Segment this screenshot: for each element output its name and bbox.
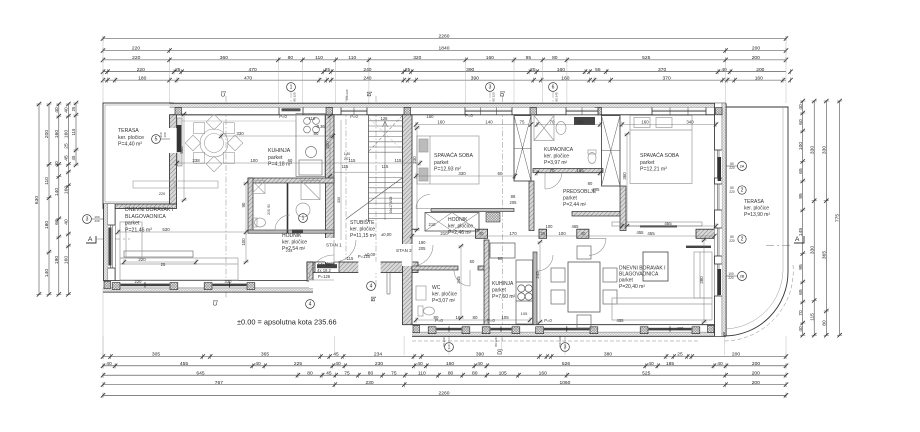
- wall kitchen east partition right apartment: [533, 252, 537, 325]
- svg-text:2260: 2260: [439, 391, 450, 397]
- svg-text:2260: 2260: [439, 34, 450, 40]
- axis marker 3 left wall: [83, 215, 92, 224]
- svg-text:238: 238: [192, 158, 200, 163]
- wall predsoblje south: [572, 212, 621, 217]
- axis line B (dash-dot): [375, 96, 377, 288]
- svg-text:70: 70: [798, 310, 804, 316]
- wall wc north right apartment: [412, 266, 458, 270]
- axis marker 4 bottom: [306, 300, 315, 309]
- kitchen upper cabinet strip left: [182, 116, 296, 122]
- svg-text:330: 330: [809, 246, 815, 254]
- svg-text:775: 775: [835, 214, 841, 222]
- junction block bottom right wall corner: [708, 325, 715, 332]
- svg-text:80: 80: [307, 370, 313, 376]
- svg-text:B]: B]: [371, 296, 377, 302]
- svg-text:160: 160: [427, 114, 435, 119]
- svg-text:60: 60: [498, 171, 503, 176]
- svg-text:115: 115: [71, 128, 76, 135]
- svg-text:D]: D]: [500, 91, 506, 97]
- svg-text:330: 330: [236, 131, 244, 136]
- svg-text:75: 75: [344, 370, 350, 376]
- svg-text:40: 40: [255, 361, 261, 367]
- svg-text:470: 470: [249, 67, 257, 73]
- svg-text:160: 160: [561, 75, 569, 81]
- svg-text:3: 3: [489, 85, 492, 91]
- svg-text:110: 110: [309, 116, 316, 121]
- svg-text:2A: 2A: [740, 164, 745, 169]
- svg-text:220: 220: [729, 190, 735, 194]
- axis marker 2A right: [738, 162, 747, 171]
- svg-text:160: 160: [64, 130, 70, 138]
- svg-text:45: 45: [64, 155, 70, 161]
- window left wall living: [108, 225, 115, 268]
- svg-text:160 220: 160 220: [558, 336, 562, 347]
- svg-text:234: 234: [374, 352, 382, 358]
- wall stairwell bottom: [307, 262, 418, 273]
- svg-text:80: 80: [552, 55, 558, 61]
- door arc kitchen right: [537, 255, 553, 271]
- svg-text:40: 40: [648, 361, 654, 367]
- washbasin kupaonica: [556, 122, 566, 135]
- svg-text:115: 115: [349, 158, 357, 163]
- svg-text:245: 245: [535, 271, 540, 279]
- svg-text:95: 95: [526, 55, 532, 61]
- svg-text:220: 220: [159, 192, 165, 196]
- svg-text:100: 100: [241, 238, 246, 246]
- svg-text:-0,36: -0,36: [315, 124, 325, 129]
- wall bedroom 2 west below closet: [620, 186, 626, 231]
- window right wall door 1 (terrace): [715, 150, 722, 178]
- svg-text:STAN 1: STAN 1: [326, 243, 342, 248]
- svg-text:100 220: 100 220: [345, 89, 349, 100]
- svg-text:525: 525: [642, 370, 650, 376]
- svg-text:525: 525: [642, 55, 650, 61]
- junction block bottom wall at wc: [413, 325, 420, 332]
- svg-text:240: 240: [363, 75, 371, 81]
- axis line 3 bottom (short): [564, 332, 566, 342]
- interior dimension lines texture: [116, 112, 718, 324]
- sideboard living room left: [133, 181, 218, 188]
- door arc bedroom 2: [589, 238, 606, 255]
- window top wall stairwell: [341, 108, 367, 115]
- window top wall bedroom 1: [465, 108, 512, 115]
- svg-text:80: 80: [368, 370, 374, 376]
- door leaf right wall door 4: [718, 269, 721, 295]
- wardrobe strip at terrace door: [177, 118, 182, 166]
- svg-text:25: 25: [175, 67, 181, 73]
- svg-text:210: 210: [440, 231, 448, 236]
- svg-text:185: 185: [576, 168, 584, 173]
- svg-text:160: 160: [64, 256, 70, 264]
- toilet left bathroom: [252, 218, 266, 227]
- door marker 5 terrace: [152, 135, 161, 144]
- window in stairwell bottom wall: [315, 262, 339, 272]
- svg-text:105: 105: [499, 370, 507, 376]
- axis line 6 (short): [552, 92, 554, 107]
- svg-text:±0.00 = apsolutna kota 235.66: ±0.00 = apsolutna kota 235.66: [237, 318, 337, 327]
- dimension line left col 3: [56, 102, 61, 297]
- window bottom wall right 2: [482, 325, 520, 334]
- svg-text:2B: 2B: [740, 274, 745, 279]
- svg-text:220: 220: [137, 67, 145, 73]
- svg-text:45: 45: [71, 155, 76, 160]
- svg-text:220: 220: [135, 279, 143, 284]
- sliding door leaf bedroom 2: [640, 225, 677, 227]
- dimension line right col inner: [800, 99, 805, 338]
- svg-text:630: 630: [34, 196, 40, 204]
- terrace right outline: [724, 107, 788, 336]
- svg-text:140: 140: [54, 188, 60, 196]
- svg-text:40: 40: [717, 361, 723, 367]
- svg-text:100: 100: [546, 224, 554, 229]
- dimension line top row 2 (220/1840/200): [101, 48, 788, 53]
- svg-text:200: 200: [325, 141, 330, 149]
- svg-text:160: 160: [539, 370, 547, 376]
- toilet wc right apartment: [418, 306, 435, 316]
- axis marker 3 bottom: [561, 343, 570, 352]
- dimension line top row 1 (2260): [101, 36, 788, 41]
- door gap bottom wall entry left: [309, 280, 334, 288]
- middle boundary edge line at stairwell: [412, 228, 418, 230]
- svg-text:25: 25: [541, 231, 546, 236]
- wall exterior bottom left apartment: [103, 281, 313, 293]
- wall stub middle 2: [539, 229, 547, 238]
- door arc STAN 1 stairwell: [334, 240, 356, 262]
- wall hallway north left apartment: [248, 230, 334, 233]
- door gap stairwell bottom (entry): [358, 262, 380, 274]
- svg-text:75: 75: [391, 370, 397, 376]
- dimension line left col 2: [46, 102, 51, 297]
- svg-text:200: 200: [732, 352, 740, 358]
- svg-text:80: 80: [821, 320, 827, 326]
- svg-text:80: 80: [448, 370, 454, 376]
- svg-text:115: 115: [342, 164, 349, 169]
- junction block top wall at closet 1: [530, 108, 537, 115]
- door arc STAN 1 entry: [309, 255, 334, 280]
- svg-text:767: 767: [215, 380, 223, 386]
- dimension line bottom row 5 (2260): [101, 393, 788, 398]
- section marker A right: [766, 236, 804, 246]
- window top wall living: [279, 108, 303, 115]
- svg-text:P=0: P=0: [350, 114, 358, 119]
- svg-text:P=0: P=0: [279, 114, 287, 119]
- svg-text:205: 205: [510, 200, 518, 205]
- svg-text:40: 40: [54, 107, 60, 113]
- svg-text:115: 115: [809, 313, 815, 321]
- svg-text:90 240: 90 240: [555, 92, 559, 102]
- svg-text:220: 220: [729, 166, 735, 170]
- shower left bathroom: [301, 181, 320, 200]
- svg-text:4x 19,2: 4x 19,2: [317, 268, 331, 273]
- svg-text:25: 25: [161, 262, 166, 267]
- washbasin left bathroom: [296, 203, 310, 217]
- door gap stairwell west (STAN 1): [325, 238, 335, 262]
- sofa right apartment: [612, 252, 712, 320]
- stairs walk line with arrow: [383, 121, 388, 220]
- closet wardrobe bedroom 1: [514, 116, 531, 182]
- svg-text:95: 95: [798, 193, 804, 199]
- svg-text:645: 645: [196, 370, 204, 376]
- svg-text:40: 40: [106, 361, 112, 367]
- door arc bathroom left: [275, 215, 290, 230]
- svg-text:6: 6: [552, 85, 555, 91]
- wall bedroom 1 south: [431, 209, 514, 212]
- junction block top wall at stairwell west: [326, 108, 333, 115]
- heater kupaonica: [574, 117, 595, 125]
- svg-text:340: 340: [686, 120, 694, 125]
- svg-text:220: 220: [729, 239, 735, 243]
- svg-text:160: 160: [641, 120, 649, 125]
- svg-text:60: 60: [54, 219, 60, 225]
- junction block top wall at right wall: [716, 108, 723, 115]
- wall kupaonica south: [533, 169, 603, 173]
- wall exterior bottom right apartment: [412, 325, 726, 337]
- svg-text:160: 160: [557, 67, 565, 73]
- entry porch edge lines: [387, 273, 390, 295]
- leader line door marker 5: [160, 138, 170, 140]
- svg-text:210: 210: [429, 222, 437, 227]
- svg-text:380: 380: [604, 352, 612, 358]
- svg-text:200: 200: [752, 46, 760, 52]
- svg-text:100: 100: [558, 231, 566, 236]
- desk shelf bedroom 2 south: [612, 222, 702, 226]
- svg-text:200: 200: [752, 55, 760, 61]
- svg-text:455: 455: [637, 230, 645, 235]
- svg-text:115: 115: [347, 256, 354, 261]
- dimension line top row 4 (segments): [101, 69, 793, 74]
- door arc bedroom 1: [416, 195, 430, 209]
- svg-text:360: 360: [622, 172, 627, 180]
- svg-text:390: 390: [466, 67, 474, 73]
- svg-text:D]: D]: [498, 349, 504, 355]
- axis marker 2 right lower: [738, 235, 746, 243]
- wall stub middle 1: [476, 229, 488, 238]
- dimension line right col 3: [824, 99, 829, 338]
- svg-text:80: 80: [314, 131, 319, 136]
- window bottom wall right 4: [640, 325, 700, 334]
- door leaf right wall door 1: [718, 157, 721, 181]
- svg-text:455: 455: [617, 318, 625, 323]
- window top wall bathroom: [566, 108, 598, 115]
- svg-text:95: 95: [798, 264, 804, 270]
- axis line D (dash-dot): [502, 96, 504, 341]
- leader line 2A right: [714, 165, 738, 167]
- washbasin wc right apartment: [416, 286, 426, 300]
- svg-text:P=0: P=0: [487, 318, 495, 323]
- svg-text:200: 200: [756, 67, 764, 73]
- svg-text:25: 25: [677, 352, 683, 358]
- svg-text:100: 100: [576, 120, 584, 125]
- svg-text:105: 105: [501, 315, 509, 320]
- parked sliding leaf living room: [686, 246, 711, 248]
- door gap terrace divider: [169, 128, 177, 153]
- wall stub middle 4 at right wall: [696, 229, 715, 238]
- axis line stairwell window (dash-dot): [345, 96, 347, 260]
- svg-text:90: 90: [498, 256, 503, 261]
- svg-text:STUBIŠTEker. pločiceP=11,15 m²: STUBIŠTEker. pločiceP=11,15 m²: [350, 219, 376, 239]
- svg-text:65: 65: [798, 168, 804, 174]
- svg-text:160: 160: [446, 361, 454, 367]
- junction block bottom wall left corner: [104, 281, 111, 288]
- svg-text:4: 4: [370, 284, 373, 290]
- svg-text:360: 360: [220, 55, 228, 61]
- svg-text:145: 145: [798, 228, 804, 236]
- svg-text:40: 40: [479, 231, 484, 236]
- svg-text:60: 60: [798, 119, 804, 125]
- svg-text:220: 220: [728, 276, 734, 280]
- svg-text:160: 160: [755, 75, 763, 81]
- svg-text:220: 220: [132, 55, 140, 61]
- svg-text:170: 170: [509, 231, 517, 236]
- svg-text:90 220: 90 220: [492, 92, 496, 102]
- stairs cut line diagonal upper 2 (dashed): [369, 118, 402, 150]
- window bench left apartment: [124, 251, 193, 257]
- svg-text:88: 88: [511, 194, 516, 199]
- svg-text:40: 40: [335, 361, 341, 367]
- terrace top-left outline: [103, 103, 173, 204]
- svg-text:205: 205: [593, 187, 601, 192]
- leader line marker 3 left: [91, 218, 103, 220]
- svg-text:390: 390: [476, 352, 484, 358]
- dimension line bottom row 1 (segments): [101, 354, 788, 359]
- dining table right apartment: [568, 262, 600, 312]
- terrace right outer dashed arc: [723, 265, 793, 341]
- washing machine left bathroom: [252, 181, 265, 194]
- svg-text:1060: 1060: [559, 380, 570, 386]
- dimension line right col 2: [812, 99, 817, 338]
- svg-text:16x17,5/28: 16x17,5/28: [389, 196, 393, 213]
- svg-text:330: 330: [225, 279, 233, 284]
- svg-text:200: 200: [752, 370, 760, 376]
- dining chairs left apartment: [185, 114, 243, 172]
- wall kitchen-wc partition right apartment: [484, 240, 489, 325]
- svg-text:455: 455: [647, 231, 655, 236]
- svg-text:105: 105: [521, 311, 528, 316]
- shower kupaonica: [534, 116, 554, 141]
- dining table left apartment: [200, 129, 228, 157]
- window right wall door 2 (terrace): [715, 184, 722, 210]
- axis marker 4 entry: [367, 282, 376, 291]
- svg-text:65: 65: [798, 289, 804, 295]
- toilet kupaonica: [588, 150, 596, 164]
- wall bathroom west left apartment: [248, 178, 253, 233]
- wall exterior top: [170, 103, 727, 115]
- svg-text:P=0: P=0: [465, 113, 473, 118]
- svg-text:P=126: P=126: [318, 274, 331, 279]
- closet hodnik right apartment: [425, 213, 479, 232]
- svg-text:230: 230: [412, 156, 417, 164]
- terrace right inner arc: [726, 107, 783, 329]
- svg-text:100: 100: [798, 142, 804, 150]
- svg-text:2: 2: [741, 237, 744, 243]
- svg-text:1840: 1840: [439, 46, 450, 52]
- stairs cut line diagonal upper (dashed): [369, 116, 402, 151]
- wall exterior right: [715, 103, 727, 336]
- axis marker 3 top: [486, 83, 495, 92]
- svg-text:330: 330: [337, 197, 341, 203]
- svg-text:40: 40: [64, 107, 70, 113]
- wall predsoblje west: [529, 181, 534, 231]
- axis line 3 (short): [489, 92, 491, 107]
- svg-text:110: 110: [315, 55, 323, 61]
- bed bedroom 2: [630, 116, 692, 184]
- sofa left apartment: [120, 222, 238, 280]
- svg-text:526: 526: [562, 361, 570, 367]
- svg-text:205: 205: [267, 209, 271, 215]
- svg-text:2: 2: [741, 188, 744, 194]
- svg-text:330: 330: [809, 146, 815, 154]
- scattered small dimension labels: [135, 113, 685, 331]
- svg-text:80 220: 80 220: [494, 337, 498, 347]
- dining chairs right apartment: [551, 246, 617, 328]
- window top wall bedroom 2: [652, 108, 706, 115]
- svg-text:A: A: [88, 236, 93, 243]
- svg-text:80: 80: [473, 315, 478, 320]
- svg-text:320: 320: [413, 55, 421, 61]
- svg-text:40: 40: [581, 231, 586, 236]
- window bottom wall left 2: [204, 281, 255, 290]
- stairs flight separation line: [334, 171, 403, 173]
- svg-text:25: 25: [405, 67, 411, 73]
- stairs void dim line: [340, 120, 342, 240]
- svg-text:40: 40: [477, 361, 483, 367]
- svg-text:25: 25: [64, 143, 70, 149]
- svg-text:200: 200: [752, 361, 760, 367]
- kitchen counter left apartment: [296, 114, 325, 177]
- svg-text:3: 3: [86, 217, 89, 223]
- wall stairwell east: [403, 115, 413, 325]
- svg-text:110: 110: [44, 177, 50, 185]
- axis line 1 (short): [290, 92, 292, 107]
- svg-text:185: 185: [666, 361, 674, 367]
- svg-text:45: 45: [333, 352, 339, 358]
- svg-text:80: 80: [288, 55, 294, 61]
- svg-text:25: 25: [325, 67, 331, 73]
- wall jog left apartment southeast: [307, 262, 313, 281]
- dimension line right col outer (775): [837, 99, 842, 338]
- svg-text:126: 126: [381, 116, 389, 121]
- axis marker 2 right upper: [738, 186, 746, 194]
- door leaf terrace: [177, 125, 182, 152]
- axis marker 1 top: [287, 83, 296, 92]
- svg-text:90: 90: [267, 204, 271, 208]
- svg-text:40: 40: [417, 361, 423, 367]
- washer block hodnik right: [486, 213, 500, 223]
- door gap stairwell east (STAN 2): [402, 244, 413, 266]
- svg-text:460: 460: [677, 326, 685, 331]
- svg-text:STAN 2: STAN 2: [396, 248, 412, 253]
- extension lines top dims: [103, 39, 786, 103]
- svg-text:A: A: [795, 236, 800, 243]
- svg-text:330: 330: [458, 171, 466, 176]
- stairs treads: [369, 116, 403, 219]
- svg-text:180: 180: [138, 75, 146, 81]
- svg-text:115: 115: [382, 164, 389, 169]
- svg-text:470: 470: [244, 75, 252, 81]
- stairs side rail: [368, 115, 370, 222]
- svg-text:140: 140: [485, 120, 493, 125]
- wall terrace south / living north-west: [103, 204, 177, 209]
- dimension line bottom row 4 (segments): [101, 382, 788, 387]
- svg-text:45: 45: [326, 370, 332, 376]
- svg-text:240: 240: [363, 67, 371, 73]
- svg-text:±0,00: ±0,00: [365, 252, 376, 257]
- svg-text:205: 205: [419, 246, 427, 251]
- svg-text:P=0: P=0: [435, 318, 443, 323]
- wall stairwell west: [326, 115, 335, 264]
- dimension line top row 3 (segments): [101, 57, 788, 62]
- section marker A left: [86, 236, 130, 243]
